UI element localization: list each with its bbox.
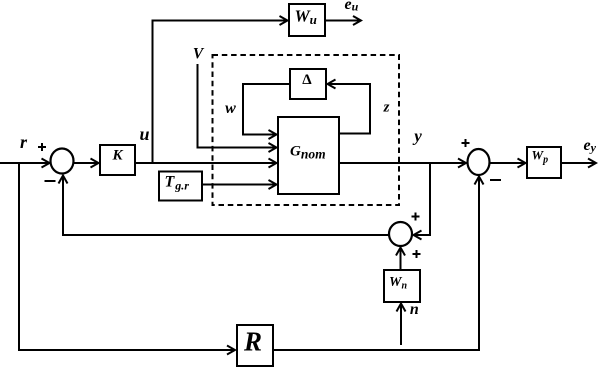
svg-text:Gnom: Gnom — [290, 144, 326, 162]
svg-text:u: u — [139, 124, 149, 144]
svg-text:Δ: Δ — [302, 72, 312, 88]
svg-text:z: z — [383, 99, 390, 115]
svg-text:ey: ey — [584, 137, 597, 155]
svg-text:eu: eu — [345, 0, 359, 14]
svg-text:n: n — [410, 301, 419, 318]
svg-text:w: w — [225, 100, 236, 117]
svg-text:y: y — [412, 127, 422, 146]
svg-text:R: R — [243, 327, 262, 357]
svg-text:r: r — [20, 132, 28, 152]
svg-text:K: K — [111, 148, 123, 164]
svg-text:V: V — [193, 46, 205, 63]
